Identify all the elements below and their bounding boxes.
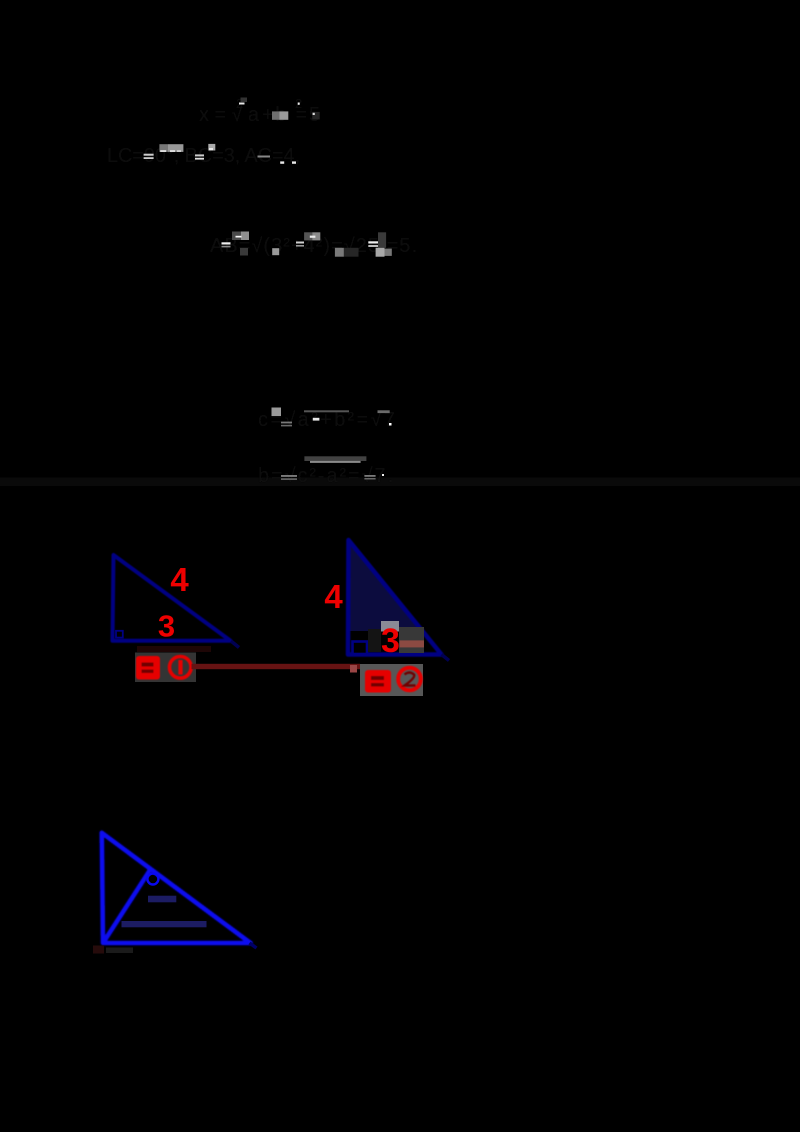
figure-1 caption: glyph 'tu' solid red block — [136, 656, 160, 680]
triangle 2 miter tail — [442, 655, 450, 661]
navy dash 1 inside figure — [148, 896, 176, 903]
figure-2 caption: glyph 'tu' solid red block — [365, 670, 391, 693]
formula line 3 (faint ghost text) — [210, 235, 417, 257]
svg-text:+b =5: +b =5 — [262, 104, 320, 126]
triangle 1 (left, outline navy) — [113, 555, 231, 641]
dark red blob below B — [93, 946, 104, 954]
line 2 accents — [144, 144, 296, 164]
circled 2 — [398, 668, 421, 691]
formula line 5 (faint ghost text) — [258, 465, 393, 487]
svg-text:4: 4 — [170, 561, 189, 598]
bright pink nub at line end — [350, 665, 357, 673]
gray area right of 3 — [399, 627, 424, 653]
line 4 accents — [272, 408, 392, 427]
svg-text:3: 3 — [381, 622, 400, 660]
formula line 1 (faint ghost text) — [199, 96, 320, 126]
triangle 2 fill (dark navy) — [349, 540, 423, 631]
line 3 accents — [222, 232, 392, 257]
formula line 2 (faint ghost text) — [107, 145, 300, 167]
gray column above 3 — [381, 621, 399, 632]
figure-1 caption gray box — [135, 653, 196, 683]
line 5 accents — [281, 456, 384, 480]
brick bar right of 3 — [400, 640, 425, 647]
faint full-width band — [0, 478, 800, 487]
triangle 2 right-angle marker — [353, 642, 368, 655]
triangle 1 miter tail — [231, 641, 239, 648]
maroon connector line — [192, 664, 361, 669]
navy dash 2 inside figure — [122, 921, 207, 927]
triangle 2 outline — [348, 540, 442, 655]
triangle 1 dark strip under base — [137, 646, 211, 652]
faint gray below B — [106, 948, 133, 954]
line 1 accents — [239, 98, 320, 120]
angle circle marker at D — [147, 874, 158, 885]
circled 1 — [170, 657, 192, 679]
formula line 4 (faint ghost text) — [258, 409, 395, 431]
bottom figure: big triangle — [102, 833, 251, 943]
bottom figure miter tail at C — [250, 943, 257, 948]
cevian from B to D — [103, 870, 150, 943]
svg-text:4: 4 — [324, 578, 343, 615]
svg-text:3: 3 — [158, 609, 175, 644]
figure-2 caption gray box — [360, 664, 423, 696]
triangle 1 right-angle marker — [116, 631, 123, 638]
